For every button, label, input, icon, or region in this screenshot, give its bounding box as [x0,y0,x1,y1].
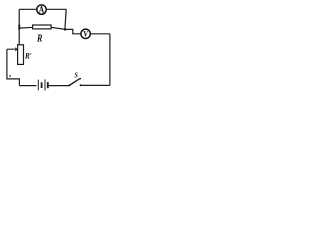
switch pivot dot [68,84,70,86]
wire left vertical [18,9,20,45]
wire voltmeter to right edge [90,33,110,35]
wire left step from rheostat slider [7,49,20,85]
node tick near bottom-left wire [10,75,11,77]
switch contact dot [80,84,82,86]
wire jog to voltmeter [65,29,82,33]
svg-text:R′: R′ [24,51,32,61]
battery cell 1 long plate [37,80,39,91]
wire bottom middle battery to switch [49,85,70,87]
svg-text:R: R [36,34,42,45]
resistor R [33,25,52,29]
ammeter A [37,5,46,14]
voltmeter V [81,29,90,38]
wire bottom left to battery [19,85,36,87]
battery cell 2 long plate [44,79,46,90]
rheostat slider arrow [7,48,15,50]
node junction right (vertical meets R wire) [64,28,66,30]
wire bottom right [81,84,110,86]
svg-text:V: V [83,29,88,39]
battery cell 1 short plate [41,82,43,88]
wire right vertical [109,34,111,86]
wire right vertical from top wire down to node [65,9,66,29]
svg-text:S: S [75,72,79,80]
wire top horizontal with ammeter [19,8,66,10]
node junction left (R wire taps left vertical) [18,25,20,30]
battery cell 2 short plate [47,82,49,88]
rheostat R' [18,45,24,65]
svg-text:A: A [39,5,44,15]
switch S blade [69,78,81,85]
wire middle horizontal through R [19,27,65,29]
